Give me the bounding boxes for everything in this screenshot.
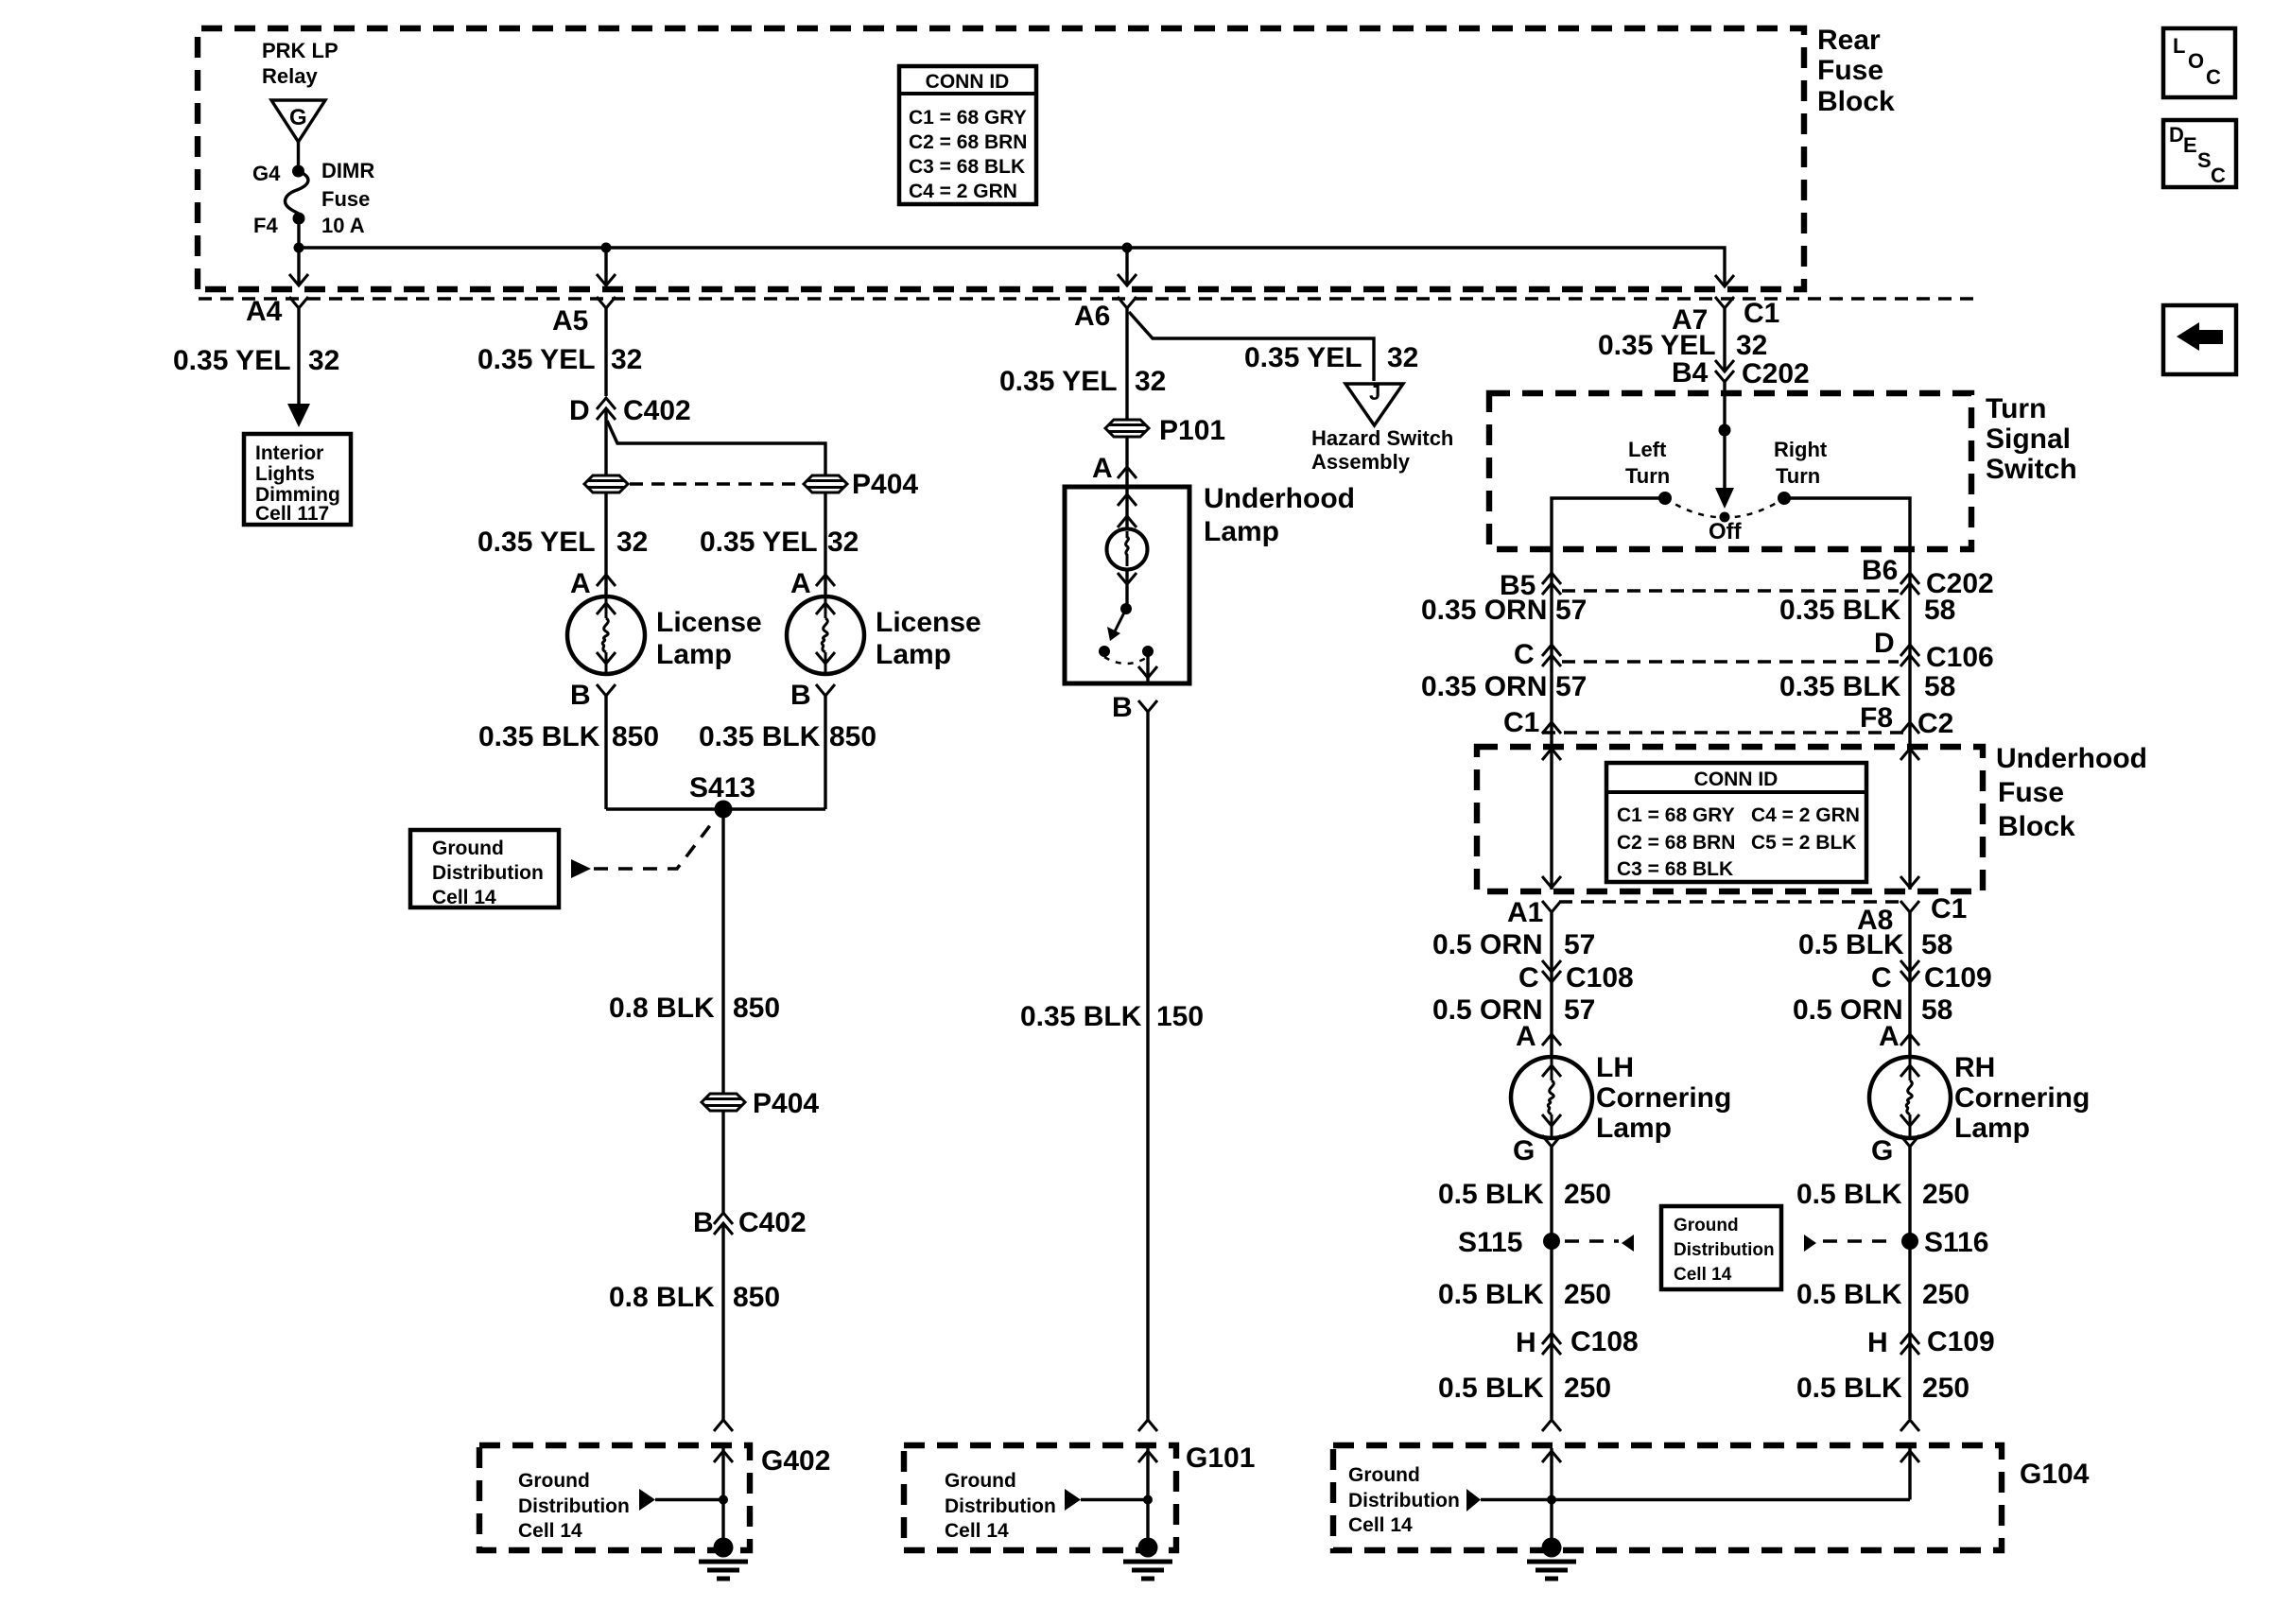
G104 entry chevron right [1900, 1420, 1919, 1431]
underhood switch arm [1115, 609, 1126, 631]
underhood internal chevron [1118, 516, 1136, 527]
svg-text:C2: C2 [1917, 708, 1953, 739]
S116 callout triangle [1804, 1235, 1816, 1252]
svg-text:Turn: Turn [1625, 464, 1670, 488]
arrow to interior lights dimming [287, 404, 310, 427]
switch arm arrowhead [1715, 488, 1734, 509]
grommet P404 right [804, 475, 847, 492]
svg-text:Distribution: Distribution [432, 862, 544, 884]
ground distribution callout box (S115/S116) [1661, 1206, 1781, 1289]
terminal A right license lamp [816, 575, 835, 586]
switch feed node [1719, 424, 1731, 437]
svg-text:Distribution: Distribution [1348, 1490, 1460, 1512]
svg-text:250: 250 [1564, 1279, 1611, 1310]
terminal B right [816, 684, 835, 696]
underhood lamp circle [1107, 529, 1148, 570]
wire P101 to lamp [1125, 437, 1128, 486]
RH cornering lamp filament [1900, 1059, 1919, 1136]
underhood lamp internal feed [1125, 487, 1128, 529]
svg-text:Cornering: Cornering [1954, 1082, 2090, 1114]
G402 entry chevron [714, 1420, 733, 1431]
terminal B left [597, 684, 616, 696]
wire branch diagonal to right license lamp [607, 421, 825, 475]
svg-text:PRK LP: PRK LP [262, 39, 338, 62]
underhood internal arrow up [1118, 494, 1136, 506]
svg-text:Cell 14: Cell 14 [432, 887, 496, 908]
G402 internal node [719, 1495, 728, 1505]
wire A7 down [1723, 308, 1726, 370]
G104 internal wire [1481, 1498, 1910, 1501]
svg-text:A: A [790, 568, 811, 599]
svg-text:G104: G104 [2020, 1459, 2090, 1490]
back arrow icon box [2163, 305, 2236, 374]
license lamp left circle [567, 596, 645, 674]
underhood switch dashed arc [1104, 657, 1148, 664]
svg-text:G: G [289, 105, 307, 130]
G402 internal arrow triangle [639, 1489, 655, 1511]
svg-text:0.35 ORN: 0.35 ORN [1421, 595, 1547, 626]
svg-text:0.35 YEL: 0.35 YEL [1244, 342, 1362, 373]
svg-text:A: A [1879, 1021, 1900, 1052]
svg-text:CONN ID: CONN ID [1694, 769, 1778, 790]
fuse DIMR 10A squiggle [286, 171, 308, 218]
underhood lamp box [1065, 487, 1189, 683]
connector C402 pin D double chevron [597, 398, 616, 409]
svg-text:Left: Left [1628, 438, 1667, 461]
junction A6 [1122, 243, 1133, 253]
svg-text:0.5 ORN: 0.5 ORN [1432, 929, 1543, 960]
ground distribution callout box (S413) [410, 830, 559, 907]
underhood fuse block connector dashed line [1542, 731, 1906, 734]
svg-text:57: 57 [1564, 994, 1595, 1026]
connector C202 dashed line [1562, 589, 1899, 592]
license lamp left filament [597, 596, 616, 674]
terminal A left license lamp [597, 575, 616, 586]
license lamp right circle [787, 596, 864, 674]
wire underhood ground [1146, 712, 1149, 1420]
svg-text:A6: A6 [1074, 301, 1110, 332]
svg-text:A: A [1092, 453, 1113, 484]
wire right turn out [1784, 498, 1910, 890]
svg-text:G402: G402 [761, 1445, 830, 1477]
G104 right entry arrow [1908, 1448, 1911, 1500]
wire right lamp feed [824, 492, 826, 596]
license lamp right filament [816, 596, 835, 674]
junction A4 [294, 243, 304, 253]
svg-text:C3 = 68 BLK: C3 = 68 BLK [909, 156, 1025, 178]
terminal A7 female connector [1715, 297, 1734, 308]
svg-text:O: O [2188, 49, 2204, 73]
connector C106 pin D double chevron [1900, 645, 1919, 656]
RH cornering lamp circle [1869, 1057, 1951, 1138]
connector C202 pin B5 double chevron [1542, 573, 1561, 584]
svg-text:Cell 14: Cell 14 [945, 1520, 1009, 1542]
G101 internal node [1143, 1495, 1153, 1505]
G104 left entry arrow [1550, 1448, 1553, 1547]
svg-text:C2 = 68 BRN: C2 = 68 BRN [909, 131, 1027, 153]
svg-text:Cell 14: Cell 14 [1348, 1514, 1413, 1536]
S115 callout triangle [1622, 1235, 1634, 1252]
grommet P404 left [584, 475, 628, 492]
svg-text:S116: S116 [1924, 1227, 1988, 1258]
svg-text:G101: G101 [1186, 1443, 1255, 1474]
wire G RH down [1908, 1147, 1911, 1419]
svg-text:32: 32 [1135, 366, 1166, 397]
pin F8 chevron [1900, 722, 1919, 734]
svg-text:C202: C202 [1742, 358, 1810, 389]
underhood switch left contact [1099, 646, 1110, 657]
grommet dashed link [630, 482, 802, 485]
svg-text:250: 250 [1564, 1373, 1611, 1404]
svg-text:H: H [1516, 1327, 1536, 1358]
CONN ID 2 divider [1606, 790, 1866, 794]
underhood switch right contact [1142, 646, 1154, 657]
terminal G LH [1542, 1135, 1561, 1147]
grommet P101 [1105, 420, 1149, 437]
svg-text:A4: A4 [246, 296, 283, 327]
svg-text:850: 850 [612, 721, 659, 752]
svg-text:C1: C1 [1744, 298, 1779, 329]
junction A5 [601, 243, 612, 253]
splice S115 node [1543, 1233, 1560, 1250]
underhood switch arm arrowhead [1107, 627, 1120, 641]
wire left lamp ground [604, 696, 607, 809]
hazard J triangle [1345, 384, 1403, 425]
splice S116 node [1901, 1233, 1918, 1250]
turn signal switch dashed box [1489, 393, 1971, 549]
svg-text:Distribution: Distribution [945, 1495, 1056, 1517]
svg-text:C: C [2211, 164, 2226, 187]
underhood switch pivot node [1120, 603, 1132, 614]
interior lights dimming cell 117 box [244, 434, 351, 525]
svg-text:32: 32 [611, 344, 642, 375]
fuse block right entry arrow [1900, 749, 1919, 760]
svg-text:C4 = 2 GRN: C4 = 2 GRN [1751, 804, 1860, 826]
svg-text:H: H [1867, 1327, 1888, 1358]
svg-text:C108: C108 [1570, 1326, 1639, 1357]
svg-text:G4: G4 [252, 162, 281, 185]
svg-text:58: 58 [1924, 595, 1955, 626]
svg-text:A: A [570, 568, 591, 599]
svg-text:Underhood: Underhood [1204, 483, 1355, 514]
svg-text:B: B [693, 1207, 714, 1238]
svg-text:Signal: Signal [1986, 423, 2071, 455]
svg-text:0.35 BLK: 0.35 BLK [478, 721, 600, 752]
svg-text:250: 250 [1564, 1179, 1611, 1210]
svg-text:Distribution: Distribution [518, 1495, 630, 1517]
wire S413 down [721, 809, 724, 1094]
svg-text:Ground: Ground [1348, 1464, 1420, 1486]
svg-text:Block: Block [1998, 811, 2075, 842]
node F4 [293, 213, 305, 225]
svg-text:P404: P404 [852, 469, 918, 500]
terminal A RH cornering [1900, 1034, 1919, 1045]
svg-text:32: 32 [827, 527, 859, 558]
wire into switch [1723, 382, 1726, 501]
svg-text:Fuse: Fuse [1998, 777, 2064, 808]
svg-text:Ground: Ground [518, 1470, 590, 1492]
off position dot [1720, 512, 1730, 523]
terminal A underhood [1118, 467, 1136, 478]
node G4 [292, 165, 304, 178]
svg-text:D: D [2169, 123, 2184, 147]
svg-text:B: B [570, 680, 591, 711]
wire A4 down [297, 308, 300, 405]
svg-text:32: 32 [308, 345, 339, 376]
svg-text:58: 58 [1924, 671, 1955, 702]
svg-text:C1 = 68 GRY: C1 = 68 GRY [1617, 804, 1735, 826]
svg-text:58: 58 [1921, 994, 1952, 1026]
LH cornering lamp circle [1511, 1057, 1592, 1138]
back arrow glyph [2177, 322, 2223, 351]
connector C108 pin C double chevron [1542, 960, 1561, 972]
svg-text:P101: P101 [1159, 415, 1225, 446]
svg-text:Ground: Ground [432, 838, 504, 859]
wire relay to G4 [297, 142, 300, 171]
svg-text:Block: Block [1817, 86, 1895, 117]
svg-text:Underhood: Underhood [1996, 743, 2147, 774]
svg-text:Ground: Ground [1674, 1216, 1739, 1235]
G101 internal wire [1081, 1498, 1148, 1501]
svg-text:0.35 BLK: 0.35 BLK [699, 721, 821, 752]
rear fuse block dashed box [198, 28, 1804, 289]
svg-text:0.5 BLK: 0.5 BLK [1796, 1179, 1902, 1210]
svg-text:Assembly: Assembly [1311, 450, 1411, 474]
svg-text:C: C [1518, 962, 1539, 993]
svg-text:850: 850 [733, 1282, 780, 1313]
svg-text:C5 = 2 BLK: C5 = 2 BLK [1751, 832, 1856, 854]
connector C108 pin H double chevron [1542, 1333, 1561, 1344]
underhood lamp filament [1126, 531, 1129, 566]
svg-text:Interior: Interior [255, 442, 323, 464]
svg-text:Lamp: Lamp [876, 639, 951, 670]
G104 ground box [1333, 1445, 2002, 1550]
arrow A7 [1715, 275, 1734, 286]
svg-text:Fuse: Fuse [321, 187, 370, 211]
svg-text:License: License [876, 607, 981, 638]
svg-text:A5: A5 [552, 305, 588, 337]
svg-text:S115: S115 [1458, 1227, 1522, 1258]
connector C202 pin B6 double chevron [1900, 573, 1919, 584]
svg-text:0.35 YEL: 0.35 YEL [173, 345, 291, 376]
svg-text:0.35 ORN: 0.35 ORN [1421, 671, 1547, 702]
G104 internal arrow triangle [1466, 1489, 1481, 1512]
underhood switch chevron [1118, 573, 1136, 584]
svg-text:0.35 YEL: 0.35 YEL [477, 344, 596, 375]
svg-text:C106: C106 [1926, 642, 1994, 673]
svg-text:0.8 BLK: 0.8 BLK [609, 1282, 715, 1313]
arrow A5 [597, 274, 616, 285]
terminal B underhood [1138, 700, 1157, 712]
wire A5 below C402 [604, 408, 607, 475]
connector C402 pin B double chevron [714, 1213, 733, 1224]
svg-text:250: 250 [1922, 1279, 1969, 1310]
svg-text:G: G [1513, 1135, 1535, 1166]
svg-text:10 A: 10 A [321, 214, 365, 237]
svg-text:J: J [1369, 381, 1380, 405]
svg-text:0.35 YEL: 0.35 YEL [477, 527, 596, 558]
wire A5 drop [604, 248, 607, 285]
CONN ID table box 2 [1606, 763, 1866, 882]
svg-text:Lamp: Lamp [1596, 1113, 1672, 1144]
svg-text:250: 250 [1922, 1179, 1969, 1210]
G402 internal wire [655, 1498, 723, 1501]
svg-text:Right: Right [1774, 438, 1828, 461]
svg-text:C109: C109 [1924, 962, 1992, 993]
connector C106 pin C double chevron [1542, 645, 1561, 656]
svg-text:B: B [1112, 692, 1133, 723]
svg-text:RH: RH [1954, 1052, 1995, 1083]
G101 entry chevron [1138, 1420, 1157, 1431]
wire A5 down [604, 308, 607, 396]
wire A6 down [1125, 308, 1128, 420]
underhood output arrow [1138, 666, 1157, 678]
wire left lamp feed [604, 492, 607, 596]
svg-text:C4 = 2 GRN: C4 = 2 GRN [909, 181, 1017, 202]
callout dashed leader to S413 [594, 821, 714, 869]
svg-text:Ground: Ground [945, 1470, 1016, 1492]
G104 internal node [1547, 1495, 1556, 1505]
svg-text:57: 57 [1564, 929, 1595, 960]
svg-text:Lamp: Lamp [1204, 516, 1279, 547]
G402 ground box [479, 1445, 750, 1550]
underhood fuse block dashed box [1477, 747, 1983, 891]
svg-text:B4: B4 [1672, 357, 1709, 389]
wire G LH down [1550, 1147, 1553, 1419]
ground symbol G402 [699, 1538, 748, 1580]
underhood output stem [1146, 651, 1149, 682]
svg-text:150: 150 [1156, 1001, 1204, 1032]
svg-text:0.35 BLK: 0.35 BLK [1779, 595, 1901, 626]
svg-text:850: 850 [733, 993, 780, 1024]
fuse block output dashed line [1559, 900, 1906, 903]
svg-text:Off: Off [1709, 519, 1743, 544]
svg-text:250: 250 [1922, 1373, 1969, 1404]
svg-text:0.35 YEL: 0.35 YEL [700, 527, 818, 558]
S116 dashed leader [1823, 1239, 1897, 1243]
svg-text:S413: S413 [689, 772, 755, 803]
connector C202 pin B4 double chevron [1715, 360, 1734, 371]
svg-text:License: License [656, 607, 762, 638]
svg-text:A: A [1516, 1021, 1536, 1052]
off dashed arc [1665, 498, 1784, 518]
svg-text:C402: C402 [623, 395, 691, 426]
svg-text:C109: C109 [1927, 1326, 1995, 1357]
wire to G402 [721, 1223, 724, 1420]
svg-text:G: G [1871, 1135, 1893, 1166]
svg-text:D: D [569, 395, 590, 426]
terminal G RH [1900, 1135, 1919, 1147]
svg-text:C108: C108 [1566, 962, 1634, 993]
svg-text:Lamp: Lamp [656, 639, 732, 670]
terminal A8 female connector [1900, 901, 1919, 912]
svg-text:L: L [2173, 34, 2185, 58]
svg-text:F4: F4 [253, 214, 278, 237]
connector C109 pin C double chevron [1900, 960, 1919, 972]
svg-text:Turn: Turn [1776, 464, 1820, 488]
svg-text:D: D [1874, 628, 1895, 659]
svg-text:S: S [2197, 148, 2212, 172]
wire left turn out [1552, 498, 1665, 890]
ground symbol G104 [1527, 1538, 1576, 1580]
svg-text:0.5 BLK: 0.5 BLK [1438, 1373, 1544, 1404]
svg-text:P404: P404 [753, 1088, 819, 1119]
svg-text:Cell 117: Cell 117 [255, 503, 329, 525]
wire below grommet [721, 1111, 724, 1213]
svg-text:0.5 BLK: 0.5 BLK [1438, 1179, 1544, 1210]
fuse block left entry arrow [1542, 749, 1561, 760]
svg-text:B: B [790, 680, 811, 711]
svg-text:0.5 BLK: 0.5 BLK [1796, 1279, 1902, 1310]
svg-text:Lamp: Lamp [1954, 1113, 2030, 1144]
G104 entry chevron left [1542, 1420, 1561, 1431]
S115 dashed leader [1565, 1239, 1619, 1243]
wire hazard branch [1129, 312, 1374, 381]
G101 entry arrow [1146, 1448, 1149, 1547]
terminal A1 female connector [1542, 901, 1561, 912]
svg-text:Turn: Turn [1986, 393, 2046, 424]
svg-text:Cell 14: Cell 14 [518, 1520, 582, 1542]
svg-text:Relay: Relay [262, 64, 318, 88]
arrow A4 [289, 274, 308, 285]
connector C109 pin H double chevron [1900, 1333, 1919, 1344]
svg-text:C1: C1 [1503, 707, 1539, 738]
terminal A LH cornering [1542, 1034, 1561, 1045]
wire F4 to bus [297, 218, 300, 248]
svg-text:Distribution: Distribution [1674, 1240, 1775, 1260]
G101 ground box [904, 1445, 1176, 1550]
bus wire horizontal [299, 248, 1725, 286]
LH cornering lamp filament [1542, 1059, 1561, 1136]
svg-text:C: C [2206, 65, 2221, 89]
G402 entry arrow [721, 1448, 724, 1547]
fuse block right exit arrow [1900, 876, 1919, 888]
svg-text:58: 58 [1921, 929, 1952, 960]
wire A6 drop [1125, 248, 1128, 285]
svg-text:C1 = 68 GRY: C1 = 68 GRY [909, 107, 1027, 129]
underhood switch stem [1125, 569, 1128, 609]
svg-text:Hazard Switch: Hazard Switch [1311, 426, 1453, 450]
svg-text:A1: A1 [1507, 897, 1543, 928]
node S413 [715, 801, 733, 819]
svg-text:57: 57 [1555, 595, 1587, 626]
arrow A6 [1118, 274, 1136, 285]
terminal A4 female connector [289, 297, 308, 308]
svg-text:LH: LH [1596, 1052, 1634, 1083]
svg-text:C: C [1871, 962, 1892, 993]
svg-text:C: C [1514, 639, 1535, 670]
svg-text:Fuse: Fuse [1817, 55, 1883, 86]
svg-text:850: 850 [829, 721, 876, 752]
svg-text:32: 32 [1736, 330, 1767, 361]
svg-text:Switch: Switch [1986, 454, 2077, 485]
wire joining lamps [606, 807, 825, 810]
svg-text:CONN ID: CONN ID [926, 71, 1010, 93]
G101 internal arrow triangle [1065, 1489, 1081, 1511]
svg-text:E: E [2183, 133, 2197, 157]
svg-text:32: 32 [616, 527, 648, 558]
callout arrow triangle [571, 859, 591, 878]
svg-text:32: 32 [1387, 342, 1418, 373]
svg-text:Lights: Lights [255, 463, 315, 485]
grommet P404 (lower) [702, 1094, 745, 1111]
connector C106 dashed line [1562, 660, 1899, 663]
wire A8 down [1908, 912, 1911, 1057]
svg-text:0.35 BLK: 0.35 BLK [1779, 671, 1901, 702]
ground symbol G101 [1123, 1538, 1172, 1580]
left turn contact [1658, 492, 1672, 505]
svg-text:57: 57 [1555, 671, 1587, 702]
